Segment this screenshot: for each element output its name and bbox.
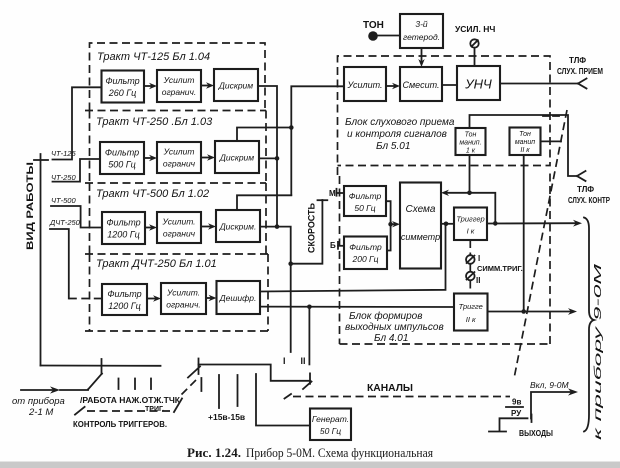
wire F1-U1 arrow <box>144 83 157 89</box>
amp-limiter U3 <box>157 212 201 243</box>
contact М <box>329 189 344 198</box>
svg-text:Б: Б <box>330 241 336 250</box>
wire D2 output <box>259 157 277 159</box>
svg-text:гетерод.: гетерод. <box>403 32 440 42</box>
wire Дешифр top output to trigger I net <box>260 224 446 292</box>
svg-text:СИММ.ТРИГ.: СИММ.ТРИГ. <box>477 264 523 273</box>
svg-text:ТЛФ: ТЛФ <box>569 56 586 65</box>
svg-text:1200 Гц: 1200 Гц <box>108 301 141 311</box>
amp-limiter U2 <box>157 142 201 173</box>
svg-text:СЛУХ. КОНТР: СЛУХ. КОНТР <box>568 196 611 205</box>
junction TM1 drop <box>467 191 472 196</box>
feedback wire to Схема arrow <box>441 190 495 224</box>
svg-text:СЛУХ. ПРИЕМ: СЛУХ. ПРИЕМ <box>557 67 603 76</box>
wire U4-Дешифр arrow <box>206 295 217 301</box>
svg-text:Бл 4.01: Бл 4.01 <box>374 333 408 344</box>
dashed bracket контроль <box>75 399 182 415</box>
switch contact 2 <box>182 359 202 395</box>
summing box Схема <box>400 183 441 269</box>
svg-text:Вкл, 9-0М: Вкл, 9-0М <box>530 380 569 390</box>
svg-text:манип.: манип. <box>459 140 481 147</box>
discriminator D2 <box>215 141 259 173</box>
wire D2 top stub to bus C <box>237 128 291 142</box>
filter 200Гц box <box>344 237 387 270</box>
amp-limiter U1 <box>157 70 201 102</box>
wire F200 output <box>387 224 391 250</box>
block 5.01 dashed box <box>338 56 551 175</box>
filter F3 1200Гц <box>102 212 145 244</box>
svg-text:РУ: РУ <box>511 409 522 418</box>
svg-text:ДЧТ-250: ДЧТ-250 <box>49 218 81 227</box>
svg-text:Триггер: Триггер <box>456 215 484 224</box>
svg-text:огранич.: огранич. <box>166 300 201 310</box>
svg-text:II к: II к <box>520 147 530 154</box>
symm trigger contact II <box>466 264 475 294</box>
tract box Бл 1.04 <box>85 43 266 111</box>
junction bus B speed branch <box>288 261 293 266</box>
block 4.01 dashed box <box>340 172 551 344</box>
svg-text:Усилит: Усилит <box>163 75 195 85</box>
input arrow от прибора <box>21 386 60 393</box>
svg-text:Дискрим: Дискрим <box>219 153 254 163</box>
svg-text:КАНАЛЫ: КАНАЛЫ <box>367 383 413 394</box>
filter 50Гц box <box>344 186 386 216</box>
svg-text:2-1 М: 2-1 М <box>28 407 53 418</box>
label от прибора 2-1М <box>12 396 65 418</box>
junction on bus C <box>289 125 294 130</box>
wire F3-U3 arrow <box>145 224 157 230</box>
mixer Смесит <box>400 67 442 101</box>
output arrow Вкл <box>531 388 578 418</box>
filter F1 260Гц <box>102 71 145 103</box>
wire heterodyne-mixer arrow <box>418 48 424 67</box>
svg-text:Усилит.: Усилит. <box>161 217 195 227</box>
symm trigger contact I <box>466 240 475 264</box>
svg-text:1200 Гц: 1200 Гц <box>107 230 140 240</box>
tract box Бл 1.03 <box>85 111 266 184</box>
svg-text:Бл 5.01: Бл 5.01 <box>376 141 410 152</box>
svg-text:I: I <box>478 254 480 263</box>
svg-text:Схема: Схема <box>406 204 436 215</box>
svg-text:3-й: 3-й <box>415 19 428 29</box>
wire УНЧ output ТЛФ ПРИЕМ <box>500 79 587 89</box>
battery wire and ground <box>489 415 532 432</box>
svg-text:огранич.: огранич. <box>162 87 197 97</box>
decoder Дешифр <box>217 281 261 314</box>
svg-text:200 Гц: 200 Гц <box>351 254 378 264</box>
svg-text:Генерат.: Генерат. <box>312 414 349 424</box>
bus C to Усилит input <box>291 86 344 195</box>
svg-text:Тон: Тон <box>465 132 477 139</box>
svg-text:ЧТ-500: ЧТ-500 <box>51 196 76 205</box>
contact wire ЧТ-250 <box>53 159 101 182</box>
junction feedback <box>493 221 498 226</box>
svg-text:и контроля сигналов: и контроля сигналов <box>347 129 447 140</box>
wire to generator <box>256 374 310 426</box>
label ТЛФ СЛУХ.КОНТР <box>568 185 611 205</box>
svg-text:Фильтр: Фильтр <box>106 218 140 228</box>
trigger II box <box>454 294 488 331</box>
tone jack <box>368 31 400 41</box>
wire D3 top stub <box>237 195 291 210</box>
wire Смесит-УНЧ <box>442 84 457 86</box>
wire Схема to trigger I <box>441 223 454 225</box>
svg-text:ТОН: ТОН <box>363 20 384 31</box>
svg-text:Усилит: Усилит <box>163 147 195 157</box>
svg-text:УСИЛ. НЧ: УСИЛ. НЧ <box>455 24 495 34</box>
label РАБОТА НАЖ.ОТЖ.ТЧК <box>80 396 180 413</box>
wire Усилит-Смесит arrow <box>386 83 400 89</box>
svg-text:I к: I к <box>467 227 475 236</box>
output brace <box>584 218 594 432</box>
bottom bus from mode line <box>41 365 161 367</box>
svg-text:Фильтр: Фильтр <box>349 191 382 201</box>
discriminator D3 <box>216 210 260 242</box>
junction drop <box>444 222 449 227</box>
junction bus A / D2 <box>275 156 280 161</box>
svg-text:к прибору 9-0М: к прибору 9-0М <box>592 262 604 440</box>
label 9в РУ <box>506 398 523 419</box>
heterodyne box <box>400 14 443 48</box>
svg-text:Дискрим: Дискрим <box>218 81 253 91</box>
svg-text:огранич: огранич <box>163 159 196 169</box>
wire F50 output <box>386 201 391 224</box>
svg-text:Дискрим.: Дискрим. <box>219 222 257 232</box>
svg-text:ТРИГ.: ТРИГ. <box>145 406 164 413</box>
work mode contact ticks <box>119 379 152 390</box>
svg-text:Фильтр: Фильтр <box>107 289 141 299</box>
svg-text:манип: манип <box>515 139 535 146</box>
svg-text:Тракт ДЧТ-250 Бл 1.01: Тракт ДЧТ-250 Бл 1.01 <box>96 258 217 270</box>
wire F4-U4 arrow <box>147 295 161 301</box>
junction channel II drop <box>307 305 312 310</box>
svg-text:УНЧ: УНЧ <box>464 77 492 92</box>
volume control symbol <box>470 39 478 66</box>
svg-text:ВЫХОДЫ: ВЫХОДЫ <box>519 428 553 438</box>
wire TM2 right to gang line <box>541 140 562 142</box>
svg-text:СКОРОСТЬ: СКОРОСТЬ <box>307 202 317 253</box>
filter F4 1200Гц <box>102 284 147 315</box>
svg-text:Рис. 1.24.: Рис. 1.24. <box>187 445 241 460</box>
generator box <box>310 409 351 441</box>
amp-limiter U4 <box>161 283 206 314</box>
power ticks +15в <box>219 375 238 408</box>
contact wire ЧТ-500 <box>51 206 102 228</box>
svg-text:от прибора: от прибора <box>12 396 65 407</box>
wire Дешифр bottom output to trigger II <box>260 306 454 308</box>
junction TM2 drop <box>521 309 526 314</box>
svg-text:Тракт ЧТ-500 Бл 1.02: Тракт ЧТ-500 Бл 1.02 <box>96 188 209 200</box>
junction filters <box>388 222 393 227</box>
svg-text:500 Гц: 500 Гц <box>108 160 136 170</box>
svg-text:Фильтр: Фильтр <box>105 148 139 158</box>
discriminator D1 <box>214 69 258 101</box>
svg-text:Тракт ЧТ-250 .Бл 1.03: Тракт ЧТ-250 .Бл 1.03 <box>96 116 213 128</box>
wire U3-D3 arrow <box>201 223 216 229</box>
svg-text:Блок слухового приема: Блок слухового приема <box>345 117 455 128</box>
svg-text:симметр: симметр <box>401 232 440 242</box>
svg-text:/РАБОТА НАЖ.ОТЖ.ТЧК: /РАБОТА НАЖ.ОТЖ.ТЧК <box>80 396 180 405</box>
open arrow ТЛФ КОНТР <box>577 171 586 181</box>
svg-text:Тон: Тон <box>519 131 531 138</box>
filter F2 500Гц <box>100 142 144 174</box>
bottom scan strip <box>0 462 620 468</box>
svg-text:Фильтр: Фильтр <box>105 76 139 86</box>
wire trigger II output arrow <box>488 308 578 315</box>
wire TM1 drop <box>469 155 471 193</box>
svg-text:1 к: 1 к <box>466 148 476 155</box>
contact wire ДЧТ-250 <box>50 229 102 299</box>
svg-text:Блок формиров: Блок формиров <box>349 310 422 322</box>
svg-text:I: I <box>283 356 286 366</box>
svg-text:II к: II к <box>466 315 476 324</box>
tract box Бл 1.01 <box>85 254 269 331</box>
svg-text:Тригге: Тригге <box>459 302 483 311</box>
speed switch branch <box>291 200 328 264</box>
svg-text:50 Гц: 50 Гц <box>320 426 341 436</box>
tract box Бл 1.02 <box>85 183 268 254</box>
contact wire ЧТ-125 <box>53 87 102 159</box>
wire trigger I output arrow <box>487 220 582 227</box>
svg-text:ТЛФ: ТЛФ <box>577 185 594 194</box>
svg-text:Дешифр.: Дешифр. <box>219 293 257 303</box>
wire D3 output to bus B <box>260 227 291 352</box>
label ТЛФ СЛУХ.ПРИЕМ <box>557 56 603 76</box>
svg-text:Усилит.: Усилит. <box>166 288 200 298</box>
svg-text:Смесит.: Смесит. <box>403 80 440 90</box>
gang dashed diagonal <box>514 110 567 379</box>
wire U2-D2 arrow <box>201 154 215 160</box>
second bus segment <box>199 365 311 381</box>
svg-text:Усилит.: Усилит. <box>346 80 382 90</box>
wire F2-U2 arrow <box>144 155 157 161</box>
wire TM2 drop <box>523 155 525 312</box>
svg-text:Тракт ЧТ-125 Бл 1.04: Тракт ЧТ-125 Бл 1.04 <box>97 51 210 63</box>
svg-text:выходных импульсов: выходных импульсов <box>345 322 444 333</box>
dashed каналы bus <box>285 394 511 399</box>
svg-text:260 Гц: 260 Гц <box>108 88 137 98</box>
tone manip I box <box>456 128 486 155</box>
svg-text:КОНТРОЛЬ ТРИГГЕРОВ.: КОНТРОЛЬ ТРИГГЕРОВ. <box>73 419 167 429</box>
svg-text:Фильтр: Фильтр <box>349 242 382 252</box>
bus A from D1 down <box>258 86 277 227</box>
trigger I box <box>454 208 487 241</box>
svg-text:огранич: огранич <box>163 229 196 239</box>
svg-text:50 Гц: 50 Гц <box>354 203 375 213</box>
svg-text:Прибор 5-0М. Схема функциональ: Прибор 5-0М. Схема функциональная <box>246 445 433 460</box>
switch contact от прибора <box>60 359 102 390</box>
svg-text:II: II <box>476 276 480 285</box>
mode selector line ВИД РАБОТЫ <box>34 154 48 366</box>
svg-text:М: М <box>329 189 336 198</box>
svg-text:ВИД РАБОТЫ: ВИД РАБОТЫ <box>25 162 36 250</box>
gang tick <box>541 115 559 117</box>
tone manip II box <box>510 128 541 156</box>
amplifier Усилит 5.01 <box>344 67 386 101</box>
wire U1-D1 arrow <box>201 82 214 88</box>
block 5.01 label <box>345 117 455 152</box>
svg-text:ЧТ-250: ЧТ-250 <box>51 173 76 182</box>
junction bus A end on D3 wire <box>275 224 280 229</box>
arrow into Схема <box>391 221 400 227</box>
svg-text:II: II <box>301 356 306 366</box>
svg-text:+15в-15в: +15в-15в <box>208 412 245 422</box>
amplifier УНЧ <box>457 66 500 100</box>
channel II drop line <box>303 307 312 389</box>
contact Б <box>330 241 344 250</box>
wire TM1 top to контр output <box>470 115 578 176</box>
svg-text:9в: 9в <box>512 398 521 407</box>
block 4.01 label <box>345 310 444 344</box>
